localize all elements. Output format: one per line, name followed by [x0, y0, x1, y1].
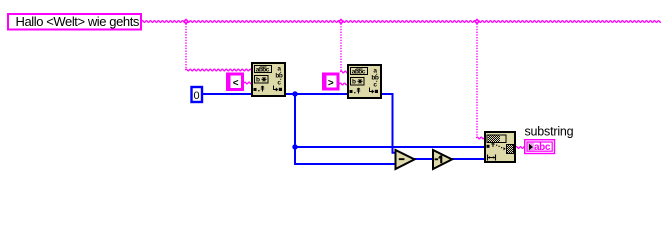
numeric constant 0: [192, 87, 203, 102]
svg-text:Hallo <Welt> wie gehts: Hallo <Welt> wie gehts: [16, 14, 140, 29]
wire: Match Pattern 1 offset-past-match to Match Pattern 2 offset: [286, 93, 348, 95]
wire: branch down from offset bus: [294, 94, 296, 164]
svg-text:abc: abc: [534, 142, 551, 153]
wire: Decrement output to String Subset length input: [451, 158, 485, 160]
string constant "<": [226, 73, 244, 92]
wire: string branch down to String Subset: [476, 24, 478, 138]
junction: string wire branch at x=186: [183, 18, 189, 24]
string control "Hallo <Welt> wie gehts": [8, 14, 141, 30]
svg-text:<: <: [233, 78, 239, 89]
function: Match Pattern 1: [252, 63, 285, 96]
function: Match Pattern 2: [348, 65, 381, 98]
wire: offset to Subtract bottom input: [294, 163, 396, 165]
wire: String Subset output to substring indicator: [516, 147, 525, 149]
wire: Match Pattern 2 offset-past-match down to Subtract top input: [380, 94, 397, 153]
junction: offset branch at (295,147): [292, 144, 297, 149]
function: Decrement (-1): [433, 150, 452, 169]
wire: 0 constant to Match Pattern 1 offset input: [203, 93, 252, 95]
wire: string wire from control Hallo to right edge: [142, 21, 661, 23]
wire: Subtract output to Decrement: [413, 158, 434, 160]
junction: string wire branch at x=341: [338, 18, 344, 24]
wire: string branch down to Match Pattern 2: [340, 24, 342, 72]
function: String Subset: [485, 132, 515, 162]
svg-text:>: >: [328, 78, 334, 89]
string indicator "substring" (abc): [525, 140, 555, 154]
wire: &gt; constant to Match Pattern 2 regex input: [340, 83, 348, 85]
svg-text:substring: substring: [525, 125, 574, 139]
svg-text:0: 0: [194, 90, 200, 102]
wire: string branch down to Match Pattern 1: [185, 24, 187, 70]
wire: offset to String Subset offset input: [294, 146, 485, 148]
wire: &lt; constant to Match Pattern 1 regex input: [244, 82, 252, 84]
string constant ">": [322, 73, 340, 91]
function: Subtract: [396, 150, 415, 169]
junction: string wire branch at x=477: [474, 18, 480, 24]
junction: offset bus at (295,94): [292, 91, 297, 96]
